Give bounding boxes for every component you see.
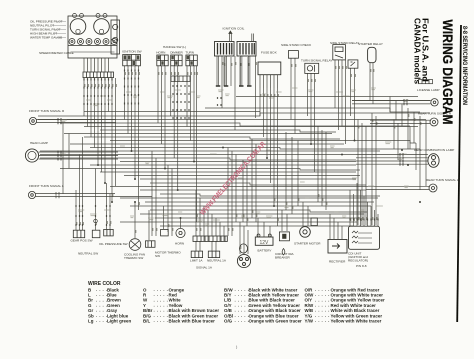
pilot bulb 1 <box>69 39 75 45</box>
svg-text:Black with Blue tracer: Black with Blue tracer <box>169 319 216 324</box>
svg-text:IGNITION COIL: IGNITION COIL <box>223 27 245 31</box>
svg-text:SIDE-STAND CHECK: SIDE-STAND CHECK <box>281 43 312 47</box>
svg-text:Orange with Green tracer: Orange with Green tracer <box>249 319 303 324</box>
svg-text:FUSE BOX: FUSE BOX <box>261 51 277 55</box>
wire bead ticks: ignition switch drops <box>125 70 139 105</box>
svg-text:IGNITION SW: IGNITION SW <box>122 50 142 54</box>
front turn signal R lamp <box>29 117 36 124</box>
turn signal relay <box>305 63 319 73</box>
pilot bulb 4 <box>95 39 101 45</box>
svg-text:GEAR POS SW: GEAR POS SW <box>71 239 93 243</box>
coil feed stubs <box>229 31 254 42</box>
svg-text:STARTER RELAY: STARTER RELAY <box>358 42 383 46</box>
connector block R <box>208 251 219 258</box>
wires: rear combination lamp <box>356 155 428 165</box>
leader lines from legend <box>52 21 66 37</box>
ignition coil 2 <box>237 42 256 57</box>
rear combination lamp <box>428 154 439 168</box>
starter relay small <box>311 218 317 226</box>
wire junctions <box>97 140 421 220</box>
front turn signal L lamp <box>28 191 35 198</box>
svg-text:HORN: HORN <box>175 242 184 246</box>
fuse teardrop <box>282 249 285 256</box>
handle switch sub-connector <box>171 76 190 82</box>
spark plug leads <box>217 56 250 86</box>
pilot bulb 6 <box>111 39 117 45</box>
rear turn signal R lamp <box>430 118 438 126</box>
svg-text:NEUTRAL 1A: NEUTRAL 1A <box>207 259 227 263</box>
oil pressure switch connector <box>104 229 114 236</box>
svg-text:SPEEDOMETER CABLE: SPEEDOMETER CABLE <box>39 51 74 55</box>
license lead ticks <box>404 99 407 105</box>
side stand check unit <box>288 51 298 59</box>
wire bead ticks: CDI inputs <box>350 219 378 221</box>
svg-text:HANDLE SW (L): HANDLE SW (L) <box>163 45 186 49</box>
page rule line <box>457 25 461 322</box>
pilot bulb 5 <box>103 39 109 45</box>
svg-text:THERMO SW: THERMO SW <box>124 256 143 260</box>
ignition coil 1 <box>215 42 235 57</box>
svg-text:TURN SIGNAL RELAY: TURN SIGNAL RELAY <box>301 59 332 63</box>
svg-text:SW: SW <box>155 254 160 258</box>
CDI unit <box>349 226 380 249</box>
svg-text:. . . . .: . . . . . <box>315 318 330 323</box>
svg-text:LICENSE LAMP: LICENSE LAMP <box>417 88 440 92</box>
pilot bulb 2 <box>78 39 84 45</box>
fuse box pins <box>260 75 278 88</box>
license lamp connector comb <box>419 80 433 84</box>
tachometer gauge <box>94 14 110 35</box>
svg-text:. . . . .: . . . . . <box>235 318 250 323</box>
wire bead ticks: handle switch drops <box>173 85 221 119</box>
water temp sender connector <box>161 229 169 236</box>
wires: front turn signal L <box>36 192 152 198</box>
meter cluster box <box>68 16 117 58</box>
pilot bulb 3 <box>86 39 92 45</box>
svg-text:12V: 12V <box>260 240 270 246</box>
ring terminal <box>94 219 98 223</box>
svg-text:STARTER MOTOR: STARTER MOTOR <box>294 242 321 246</box>
switch box 2 <box>92 230 100 238</box>
svg-text:P/N 8-8: P/N 8-8 <box>356 264 367 268</box>
svg-text:. . . . .: . . . . . <box>154 318 169 323</box>
meter harness connector strip <box>83 72 114 78</box>
fuse box <box>258 62 281 75</box>
wire color-code tick labels <box>77 62 421 249</box>
svg-text:OIL PRESSURE SW: OIL PRESSURE SW <box>99 242 128 246</box>
wire code ticks under meter connector <box>84 78 112 105</box>
license lamp <box>431 99 438 106</box>
gear position switch <box>73 230 84 238</box>
svg-text:SIGNAL 1A: SIGNAL 1A <box>196 266 213 270</box>
svg-text:BREAKER: BREAKER <box>275 256 291 260</box>
svg-text:DIMMER: DIMMER <box>170 51 183 55</box>
speedometer gauge <box>70 14 86 35</box>
svg-text:Yellow with White tracer: Yellow with White tracer <box>331 319 382 324</box>
wires: head lamp leads <box>39 152 118 159</box>
regulator rectifier <box>328 240 347 254</box>
svg-text:Y/W: Y/W <box>305 319 314 324</box>
wires: front turn signal R <box>37 120 116 123</box>
head lamp <box>25 149 38 162</box>
horn <box>176 228 185 237</box>
rear turn signal L lamp <box>429 184 437 192</box>
svg-text:WIRE COLOR: WIRE COLOR <box>88 281 121 287</box>
svg-text:8-8 SERVICING INFORMATION: 8-8 SERVICING INFORMATION <box>461 26 468 105</box>
svg-text:B/L: B/L <box>143 319 150 324</box>
wires: bulbs to connector <box>84 58 109 72</box>
diode <box>348 60 358 68</box>
wire bead ticks: bottom-left drops <box>76 205 110 226</box>
svg-text:REAR TURN SIGNAL L: REAR TURN SIGNAL L <box>426 178 459 182</box>
circuit breaker <box>279 232 289 241</box>
battery <box>255 234 273 245</box>
fan motor <box>146 241 156 248</box>
svg-text:BATTERY: BATTERY <box>258 249 272 253</box>
svg-text:LIMIT 1A: LIMIT 1A <box>190 259 203 263</box>
cooling fan thermo switch <box>129 239 141 251</box>
spark plugs <box>216 85 252 87</box>
rear comb lead ticks <box>400 153 403 166</box>
connector block L <box>191 251 202 258</box>
svg-text:HORN: HORN <box>156 51 165 55</box>
svg-text:REGULATOR): REGULATOR) <box>348 259 368 263</box>
svg-text:Lg: Lg <box>88 319 94 324</box>
starter motor <box>300 227 311 238</box>
connector ticks on turn R leads <box>58 118 61 124</box>
wire harness: main horizontal runs <box>38 97 430 227</box>
side stand relay <box>333 45 346 60</box>
svg-text:Light green: Light green <box>107 319 131 324</box>
svg-text:NEUTRAL SW: NEUTRAL SW <box>78 252 98 256</box>
wires: rear turn signal L <box>366 186 429 189</box>
meter sub-unit <box>111 20 120 54</box>
connector ticks on head lamp leads <box>58 151 61 161</box>
svg-text:CANADA models: CANADA models <box>413 18 423 84</box>
svg-text:TURN: TURN <box>185 51 194 55</box>
wire harness: vertical runs <box>63 56 426 254</box>
frame harness comb connector <box>193 236 227 242</box>
svg-text:RECTIFIER: RECTIFIER <box>329 260 346 264</box>
svg-text:O/G: O/G <box>224 319 233 324</box>
svg-text:FRONT TURN SIGNAL R: FRONT TURN SIGNAL R <box>29 109 65 113</box>
pickup coil <box>240 244 248 253</box>
wires: rear turn signal R <box>370 120 430 123</box>
svg-text:REAR COMBINATION LAMP: REAR COMBINATION LAMP <box>414 148 454 152</box>
svg-text:WIRING DIAGRAM: WIRING DIAGRAM <box>440 20 455 125</box>
ignition switch <box>123 55 141 66</box>
wires: license lamp <box>352 101 431 104</box>
svg-text:HEAD LAMP: HEAD LAMP <box>30 141 48 145</box>
wire code label smudges <box>60 88 409 226</box>
starter relay capsule <box>368 47 376 62</box>
svg-text:FRONT TURN SIGNAL L: FRONT TURN SIGNAL L <box>29 184 64 188</box>
magneto <box>237 254 250 267</box>
